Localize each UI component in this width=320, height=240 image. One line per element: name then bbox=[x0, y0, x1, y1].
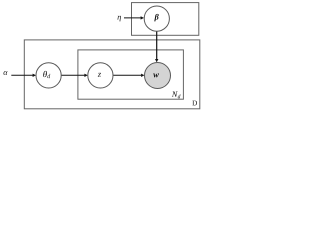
label theta_d bbox=[43, 71, 47, 77]
plate D (document plate) bbox=[24, 40, 200, 109]
node theta_d (circle) bbox=[36, 63, 61, 88]
wire alpha to theta_d bbox=[11, 74, 33, 76]
wire theta_d to z bbox=[61, 74, 84, 76]
plate K (topic plate containing beta) bbox=[132, 3, 199, 36]
label beta bbox=[154, 14, 158, 22]
wire z to w bbox=[113, 74, 141, 76]
wire beta to w bbox=[156, 31, 158, 59]
label D bbox=[192, 101, 197, 106]
label w bbox=[153, 73, 159, 77]
wire eta to beta bbox=[124, 17, 141, 19]
label alpha bbox=[3, 71, 7, 75]
node beta (circle) bbox=[144, 6, 169, 31]
plate N_d (word plate) bbox=[78, 50, 183, 99]
label eta bbox=[118, 16, 121, 22]
label z bbox=[98, 73, 101, 77]
node w (observed, shaded circle) bbox=[145, 63, 171, 89]
node z (circle) bbox=[88, 63, 113, 88]
label N_d bbox=[172, 92, 178, 97]
